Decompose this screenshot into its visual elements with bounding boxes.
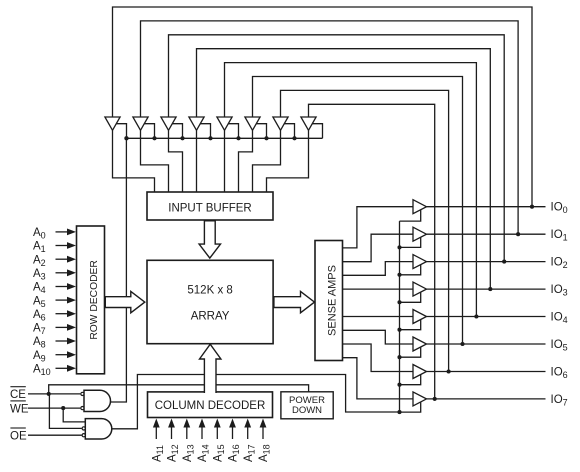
wire: address input A5 arrow (56, 299, 69, 301)
output driver triangle 1 (413, 227, 427, 241)
wire: enable stub input buffer 5 (256, 124, 266, 139)
wire: enable stub driver 5 (400, 347, 421, 357)
junction IO7 / feedback loop (433, 397, 437, 401)
output driver triangle 4 (413, 310, 427, 324)
wire: address input A3 arrow (56, 272, 69, 274)
wire: address input A2 arrow (56, 258, 69, 260)
bubble on U1 input (CE) (81, 392, 84, 395)
wire: address input A12 arrow (171, 427, 173, 440)
junction on write-enable bus (buffer 4) (236, 136, 240, 140)
wire: IO4 feedback loop to input buffer 4 (225, 63, 477, 317)
wire: address input A1 arrow (56, 245, 69, 247)
junction on write-enable bus (buffer 5) (264, 136, 268, 140)
block: POWER DOWN (281, 392, 333, 419)
wire: IO6 feedback loop to input buffer 6 (281, 90, 449, 371)
wire: IO2 line (427, 261, 546, 263)
block arrow: INPUT BUFFER to ARRAY (199, 221, 220, 258)
wire: read-enable from gate U2 to output bus (112, 375, 400, 429)
wire: address input A16 arrow (232, 427, 234, 440)
wire: WE branch to gate U2 input (63, 408, 85, 422)
block: COLUMN DECODER (148, 392, 273, 418)
output driver triangle 2 (413, 255, 427, 269)
junction IO6 / feedback loop (447, 369, 451, 373)
wire: enable stub input buffer 0 (116, 124, 126, 139)
wire: IO7 feedback loop to input buffer 7 (309, 104, 435, 399)
input data buffer triangle 2 (161, 117, 176, 130)
wire: input buffer 2 output staircase into INPUT BUFFER (169, 130, 183, 192)
junction IO2 / feedback loop (502, 260, 506, 264)
input data buffer triangle 7 (301, 117, 316, 130)
bubble on U1 input (WE) (81, 407, 84, 410)
junction on write-enable bus (buffer 6) (292, 136, 296, 140)
wire: SENSE AMPS output 5 staircase to driver 5 (343, 330, 414, 344)
wire: input buffer 6 output staircase into INPUT BUFFER (253, 130, 281, 192)
wire: SENSE AMPS output 1 staircase to driver 1 (343, 234, 414, 262)
wire: enable stub driver 7 (400, 402, 421, 412)
wire: enable stub driver 1 (400, 237, 421, 247)
wire: enable stub input buffer 7 (312, 124, 322, 139)
junction IO5 / feedback loop (460, 342, 464, 346)
wire: write-enable from gate U1 output up to bus (111, 138, 127, 402)
wire: IO1 feedback loop to input buffer 1 (141, 21, 519, 234)
junction on output-enable bus (driver 4) (397, 328, 401, 332)
wire: IO7 line (427, 398, 546, 400)
wire: address input A4 arrow (56, 286, 69, 288)
svg-text:ARRAY: ARRAY (191, 311, 230, 323)
wire: address input A8 arrow (56, 340, 69, 342)
output driver triangle 3 (413, 282, 427, 296)
wire: enable stub driver 3 (400, 292, 421, 302)
input data buffer triangle 1 (133, 117, 148, 130)
wire: address input A6 arrow (56, 313, 69, 315)
wire: write-enable bus under input buffers (127, 137, 323, 139)
wire: input buffer 1 output staircase into INPUT BUFFER (141, 130, 169, 192)
junction on output-enable bus (driver 1) (397, 245, 401, 249)
output driver triangle 7 (413, 392, 427, 406)
wire: enable stub input buffer 2 (172, 124, 182, 139)
wire: OE to gate U2 input (28, 434, 82, 436)
svg-text:512K x 8: 512K x 8 (187, 284, 232, 296)
wire: address input A7 arrow (56, 326, 69, 328)
junction write-enable bus / vertical (124, 136, 128, 140)
wire: SENSE AMPS output 2 staircase to driver 2 (343, 262, 414, 276)
junction IO0 / feedback loop (530, 205, 534, 209)
svg-text:DOWN: DOWN (292, 405, 322, 416)
junction on output-enable bus (driver 5) (397, 355, 401, 359)
wire: IO5 feedback loop to input buffer 5 (253, 77, 463, 345)
block: 512K x 8 ARRAY (147, 260, 273, 343)
AND gate U1 (write enable) (84, 390, 111, 411)
wire: IO3 line (427, 288, 546, 290)
wire: CE branch to gate U2 input (49, 394, 81, 429)
wire: SENSE AMPS output 6 staircase to driver 6 (343, 344, 414, 372)
svg-text:COLUMN DECODER: COLUMN DECODER (155, 400, 266, 412)
wire: enable stub input buffer 4 (228, 124, 238, 139)
block: INPUT BUFFER (147, 192, 273, 220)
wire: CE to gate U1 input (28, 393, 80, 395)
svg-text:SENSE AMPS: SENSE AMPS (327, 265, 339, 336)
wire: SENSE AMPS output 3 to driver 3 (343, 288, 414, 290)
wire: IO5 line (427, 343, 546, 345)
wire: address input A14 arrow (201, 427, 203, 440)
wire: address input A0 arrow (56, 231, 69, 233)
wire: input buffer 7 output staircase into INPUT BUFFER (267, 130, 309, 192)
wire: IO6 line (427, 371, 546, 373)
junction on write-enable bus (buffer 0) (124, 136, 128, 140)
output driver triangle 0 (413, 200, 427, 214)
input data buffer triangle 3 (189, 117, 204, 130)
junction on output-enable bus (driver 3) (397, 300, 401, 304)
wire: enable stub input buffer 3 (200, 124, 210, 139)
wire: WE to gate U1 input (28, 407, 80, 409)
block: SENSE AMPS (315, 241, 343, 361)
wire: address input A9 arrow (56, 354, 69, 356)
junction IO4 / feedback loop (474, 314, 478, 318)
junction on WE wire (61, 406, 65, 410)
wire: enable stub driver 4 (400, 320, 421, 330)
junction on CE wire (47, 392, 51, 396)
output driver triangle 6 (413, 365, 427, 379)
output driver triangle 5 (413, 337, 427, 351)
wire: IO3 feedback loop to input buffer 3 (197, 49, 491, 289)
input data buffer triangle 0 (105, 117, 120, 130)
svg-text:INPUT BUFFER: INPUT BUFFER (168, 202, 252, 214)
wire: input buffer 3 output into INPUT BUFFER (196, 130, 198, 192)
wire: address input A17 arrow (247, 427, 249, 440)
junction on write-enable bus (buffer 1) (152, 136, 156, 140)
wire: IO2 feedback loop to input buffer 2 (169, 35, 505, 262)
junction on output-enable bus (driver 6) (397, 383, 401, 387)
wire: CE branch to POWER DOWN (49, 385, 309, 394)
wire: address input A10 arrow (56, 367, 69, 369)
wire: SENSE AMPS output 0 staircase to driver 0 (343, 207, 414, 248)
junction on write-enable bus (buffer 3) (208, 136, 212, 140)
bubble on U2 input (OE) (82, 434, 85, 437)
wire: address input A15 arrow (216, 427, 218, 440)
svg-text:OE: OE (10, 430, 27, 442)
wire: input buffer 4 output into INPUT BUFFER (224, 130, 226, 192)
input data buffer triangle 6 (273, 117, 288, 130)
wire: SENSE AMPS output 7 staircase to driver 7 (343, 358, 414, 399)
wire: enable stub driver 2 (400, 265, 421, 275)
input data buffer triangle 5 (245, 117, 260, 130)
wire: IO1 line (427, 233, 546, 235)
input data buffer triangle 4 (217, 117, 232, 130)
wire: input buffer 5 output staircase into INPUT BUFFER (239, 130, 253, 192)
bubble on U2 input (CE) (82, 427, 85, 430)
wire: address input A18 arrow (262, 427, 264, 440)
wire: address input A11 arrow (155, 427, 157, 440)
junction on write-enable bus (buffer 2) (180, 136, 184, 140)
block arrow: COLUMN DECODER to ARRAY (200, 344, 221, 393)
junction IO1 / feedback loop (516, 232, 520, 236)
svg-text:CE: CE (10, 389, 26, 401)
wire: IO0 line (427, 206, 546, 208)
wire: enable stub driver 6 (400, 375, 421, 385)
wire: output-enable bus for IO drivers (399, 221, 401, 412)
wire: IO4 line (427, 316, 546, 318)
svg-text:ROW DECODER: ROW DECODER (89, 260, 100, 340)
block: ROW DECODER (77, 226, 105, 374)
svg-text:WE: WE (10, 403, 29, 415)
block arrow: ROW DECODER to ARRAY (105, 291, 145, 312)
wire: address input A13 arrow (186, 427, 188, 440)
wire: enable stub input buffer 6 (284, 124, 294, 139)
wire: SENSE AMPS output 4 to driver 4 (343, 316, 414, 318)
wire: input buffer 0 output staircase into INPUT BUFFER (113, 130, 155, 192)
wire: enable stub driver 0 (400, 210, 421, 221)
junction on output-enable bus (driver 7) (397, 410, 401, 414)
junction on output-enable bus (driver 2) (397, 273, 401, 277)
wire: IO0 feedback loop to input buffer 0 (113, 7, 533, 207)
block arrow: ARRAY to SENSE AMPS (274, 291, 315, 312)
junction IO3 / feedback loop (488, 287, 492, 291)
AND gate U2 (output enable) (85, 419, 111, 439)
wire: enable stub input buffer 1 (144, 124, 154, 139)
